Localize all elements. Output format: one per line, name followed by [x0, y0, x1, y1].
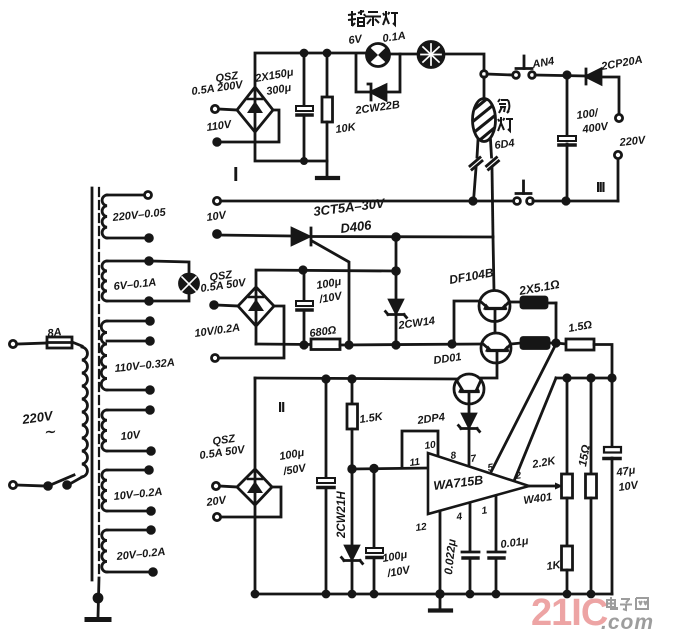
- bridge rectifier I QSZ 0.5A 200V: [237, 87, 273, 132]
- svg-text:21IC: 21IC: [531, 592, 608, 634]
- pushbutton on rail1 contacts: [514, 198, 521, 205]
- terminal 20V upper: [212, 482, 219, 489]
- capacitor 100u/10V mid: [303, 270, 306, 301]
- pin number labels: [409, 439, 522, 534]
- svg-text:2.2K: 2.2K: [530, 455, 557, 471]
- wire bridge II bottom to rail4: [255, 326, 258, 344]
- rail4 right: [340, 344, 482, 345]
- diagonal feedback wire B (to pin 2): [514, 378, 556, 481]
- wire neon-rail down to transistor collector: [493, 237, 494, 291]
- thyristor gate wire: [312, 241, 349, 345]
- svg-text:7: 7: [470, 453, 477, 465]
- wire node to button AN4: [487, 74, 513, 75]
- terminal 220V upper: [615, 114, 622, 121]
- node junction circle: [481, 71, 488, 78]
- node pin11 line: [349, 466, 356, 473]
- svg-text:0.1A: 0.1A: [382, 30, 407, 45]
- svg-text:DF104B: DF104B: [448, 265, 495, 287]
- svg-text:∼: ∼: [44, 424, 56, 439]
- svg-text:20V–0.2A: 20V–0.2A: [115, 546, 166, 563]
- zener 2CW22B branch loop: [356, 54, 371, 92]
- wire AN4 to diode node: [535, 75, 585, 76]
- svg-text:4: 4: [455, 511, 463, 523]
- svg-text:2CW14: 2CW14: [397, 315, 436, 332]
- svg-text:8A: 8A: [47, 326, 63, 340]
- svg-text:DD01: DD01: [433, 351, 463, 367]
- neon electrode right (to thyristor rail): [491, 140, 492, 157]
- rail3 (bridge II + output): [256, 270, 394, 287]
- wire top rail from bridge I to lamp: [255, 53, 366, 87]
- svg-text:0.5A 50V: 0.5A 50V: [199, 444, 247, 462]
- pin4 capacitor 0.022u: [469, 503, 472, 550]
- terminal 10V/0.2A lower with loop to right vertex: [212, 355, 219, 362]
- svg-text:II: II: [278, 399, 285, 416]
- svg-text:0.5A 200V: 0.5A 200V: [191, 79, 245, 98]
- capacitor 100u/10V low: [373, 468, 376, 549]
- resistor 1.5K: [351, 379, 354, 404]
- capacitor 2X150u/300u: [303, 53, 306, 104]
- svg-text:10V: 10V: [206, 209, 229, 224]
- svg-text:2CW22B: 2CW22B: [354, 99, 401, 117]
- svg-text:100/: 100/: [576, 107, 601, 122]
- junction cap node: [564, 72, 570, 78]
- svg-text:W401: W401: [523, 491, 553, 507]
- svg-text:400V: 400V: [581, 120, 611, 136]
- rail2 terminal 10V: [214, 231, 221, 238]
- svg-text:III: III: [596, 179, 605, 196]
- svg-text:/50V: /50V: [281, 462, 308, 478]
- capacitor 100/400V wires: [566, 75, 569, 136]
- pushbutton on rail1 actuator: [516, 192, 531, 195]
- terminal 110V upper: [211, 105, 218, 112]
- primary winding 220V: [82, 347, 87, 477]
- secondary winding 6V-0.1A: [102, 261, 107, 301]
- svg-text:100μ: 100μ: [315, 276, 342, 292]
- svg-text:100μ: 100μ: [381, 549, 408, 565]
- svg-text:1: 1: [481, 505, 488, 517]
- pin1 capacitor 0.01u: [495, 496, 498, 550]
- rail5 top of section II box: [255, 378, 458, 379]
- wire bridge I bottom to ground rail: [255, 132, 327, 161]
- potentiometer W401 2.2K: [566, 378, 569, 474]
- fuse 8A: [9, 340, 16, 347]
- secondary winding 110V-0.32A: [101, 321, 107, 390]
- wire 220V lower terminal to rail1: [617, 159, 620, 201]
- label neon lamp: [498, 99, 509, 113]
- svg-text:2CW21H: 2CW21H: [336, 491, 348, 539]
- secondary winding 220V-0.05: [102, 195, 107, 238]
- svg-text:110V: 110V: [206, 118, 234, 134]
- svg-text:AN4: AN4: [530, 55, 555, 71]
- wire bridge III bottom to ground rail: [254, 505, 257, 594]
- ground chassis bar: [87, 617, 109, 622]
- svg-text:/10V: /10V: [385, 564, 412, 580]
- svg-text:0.01μ: 0.01μ: [500, 535, 530, 551]
- op-amp WA715B triangle: [428, 453, 529, 514]
- svg-text:6V–0.1A: 6V–0.1A: [113, 277, 157, 293]
- svg-text:/10V: /10V: [317, 290, 344, 306]
- svg-text:10: 10: [424, 439, 437, 452]
- ground below op-amp: [430, 608, 451, 612]
- core ground lead: [98, 578, 99, 617]
- panel lamp: [180, 274, 199, 293]
- bridge rectifier II QSZ 0.5A 50V: [238, 287, 274, 326]
- terminal 110V lower with wire to right vertex: [214, 139, 221, 146]
- svg-text:6V: 6V: [348, 33, 365, 47]
- diode 2CP20A: [586, 69, 601, 84]
- rail1 10V output line: [213, 197, 220, 204]
- transformer core solid: [91, 188, 94, 580]
- svg-text:D406: D406: [340, 217, 373, 236]
- zener 2CW14 branch: [395, 237, 398, 300]
- svg-text:11: 11: [409, 457, 421, 469]
- zener 2CW22B symbol: [368, 84, 386, 100]
- zener 2DP4: [463, 414, 476, 427]
- svg-text:3CT5A–30V: 3CT5A–30V: [313, 195, 387, 219]
- label lamp name: [348, 10, 365, 26]
- svg-text:12: 12: [415, 521, 428, 534]
- base tie wire of DF104B/DD01: [454, 301, 480, 344]
- rail1 right part: [533, 200, 618, 203]
- rail2 wire left: [217, 235, 291, 236]
- svg-text:1.5Ω: 1.5Ω: [567, 319, 593, 335]
- svg-text:47μ: 47μ: [615, 464, 637, 479]
- resistor 1.5 ohm: [556, 343, 566, 344]
- output wire pin2 to potentiometer wiper: [529, 485, 558, 488]
- secondary winding 10V: [102, 410, 107, 451]
- svg-text:300μ: 300μ: [265, 82, 292, 98]
- svg-text:0.022μ: 0.022μ: [443, 538, 459, 575]
- svg-text:100μ: 100μ: [278, 447, 305, 463]
- svg-text:0.5A 50V: 0.5A 50V: [200, 277, 248, 295]
- primary to switch: [68, 477, 82, 485]
- bridge rectifier III QSZ 0.5A 50V: [237, 469, 272, 505]
- svg-text:I: I: [233, 164, 239, 186]
- pushbutton AN4 actuator: [516, 67, 532, 70]
- neon lamp stem: [483, 77, 486, 99]
- pushbutton AN4 contacts: [513, 72, 520, 79]
- secondary winding 20V-0.2A: [102, 530, 107, 572]
- svg-text:220V–0.05: 220V–0.05: [111, 206, 167, 224]
- zener 2CW21H: [351, 469, 354, 546]
- transistor DD01: [481, 333, 511, 363]
- capacitor 47u/10V: [611, 378, 614, 449]
- terminal 10V/0.2A upper: [211, 302, 218, 309]
- terminal 220V lower: [614, 151, 621, 158]
- svg-text:10V/0.2A: 10V/0.2A: [194, 322, 241, 340]
- wire DD01 emitter chain to driver: [481, 363, 497, 378]
- svg-text:6D4: 6D4: [494, 137, 516, 152]
- svg-text:.com: .com: [601, 611, 654, 634]
- capacitor 100u/50V: [325, 379, 328, 479]
- neon lamp tube 6D4: [473, 99, 496, 142]
- neon electrode left: [477, 140, 478, 157]
- svg-text:2DP4: 2DP4: [416, 411, 446, 427]
- wire lamp2 to node: [444, 54, 484, 71]
- ground of section I: [317, 176, 338, 180]
- lamp indicator 6V 0.1A: [367, 44, 390, 67]
- svg-text:1K: 1K: [546, 559, 563, 573]
- pin12 wire: [439, 511, 442, 594]
- svg-text:220V: 220V: [618, 134, 647, 149]
- resistor 1K: [562, 546, 573, 570]
- transistor DF104B: [479, 291, 510, 322]
- resistor 10K: [326, 53, 329, 97]
- svg-text:2CP20A: 2CP20A: [599, 54, 643, 73]
- emitter resistor 5.1 ohm (lower, solid): [511, 343, 521, 344]
- op-amp compensation loop pin10: [402, 431, 438, 467]
- emitter resistor 5.1 ohm (upper, solid): [509, 301, 521, 304]
- terminal 20V lower with loop to right vertex: [213, 513, 220, 520]
- diagonal feedback wire A (to pin 5): [490, 344, 556, 474]
- panel lamp loop 6V: [152, 261, 189, 273]
- rail4 left + resistor 680 ohm: [256, 343, 311, 346]
- svg-text:8: 8: [450, 450, 457, 462]
- svg-text:10K: 10K: [335, 121, 358, 136]
- svg-text:1.5K: 1.5K: [359, 411, 385, 426]
- transformer core dashed: [98, 188, 100, 578]
- power switch: [9, 481, 16, 488]
- svg-text:10V: 10V: [618, 479, 641, 494]
- thyristor 3CT5A-30V D406: [292, 228, 311, 245]
- rail6 output node: [556, 377, 612, 380]
- lamp 2 (round indicator): [418, 42, 444, 68]
- wire between lamps: [389, 53, 418, 56]
- transistor driver (3rd): [454, 374, 484, 404]
- svg-text:20V: 20V: [205, 494, 229, 509]
- svg-text:2X5.1Ω: 2X5.1Ω: [517, 277, 561, 298]
- svg-text:110V–0.32A: 110V–0.32A: [114, 357, 175, 375]
- ground rail bottom: [255, 593, 612, 596]
- wire diode to 220V terminal: [601, 77, 619, 114]
- svg-text:10V: 10V: [120, 429, 142, 443]
- secondary winding 10V-0.2A: [102, 470, 107, 511]
- svg-text:10V–0.2A: 10V–0.2A: [113, 486, 163, 503]
- capacitor 100/400V plates: [558, 136, 576, 141]
- rail2 wire right: [313, 235, 493, 238]
- left edge of section II box: [254, 378, 257, 469]
- resistor 15 ohm: [590, 378, 593, 474]
